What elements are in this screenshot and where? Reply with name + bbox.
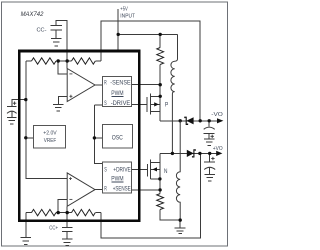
- svg-text:+SENSE: +SENSE: [113, 186, 131, 192]
- svg-text:VREF: VREF: [44, 138, 57, 144]
- svg-text:+5V: +5V: [120, 7, 128, 13]
- svg-text:+2.0V: +2.0V: [43, 131, 57, 137]
- svg-text:P: P: [165, 102, 168, 108]
- svg-text:INPUT: INPUT: [120, 14, 135, 20]
- svg-text:S: S: [104, 101, 107, 107]
- svg-text:CC+: CC+: [49, 226, 58, 232]
- svg-text:S: S: [104, 168, 107, 174]
- svg-text:+VO: +VO: [213, 146, 223, 152]
- svg-text:MAX742: MAX742: [21, 11, 44, 18]
- svg-text:R: R: [104, 80, 107, 86]
- svg-text:+DRIVE: +DRIVE: [113, 168, 130, 174]
- svg-text:N: N: [164, 169, 168, 175]
- svg-text:PWM: PWM: [111, 177, 123, 183]
- svg-text:-SENSE: -SENSE: [110, 80, 130, 86]
- svg-text:-VO: -VO: [211, 112, 223, 118]
- svg-text:PWM: PWM: [111, 91, 123, 97]
- svg-text:-DRIVE: -DRIVE: [111, 101, 131, 107]
- svg-text:OSC: OSC: [112, 136, 124, 142]
- svg-text:CC-: CC-: [37, 28, 47, 34]
- svg-text:R: R: [104, 186, 107, 192]
